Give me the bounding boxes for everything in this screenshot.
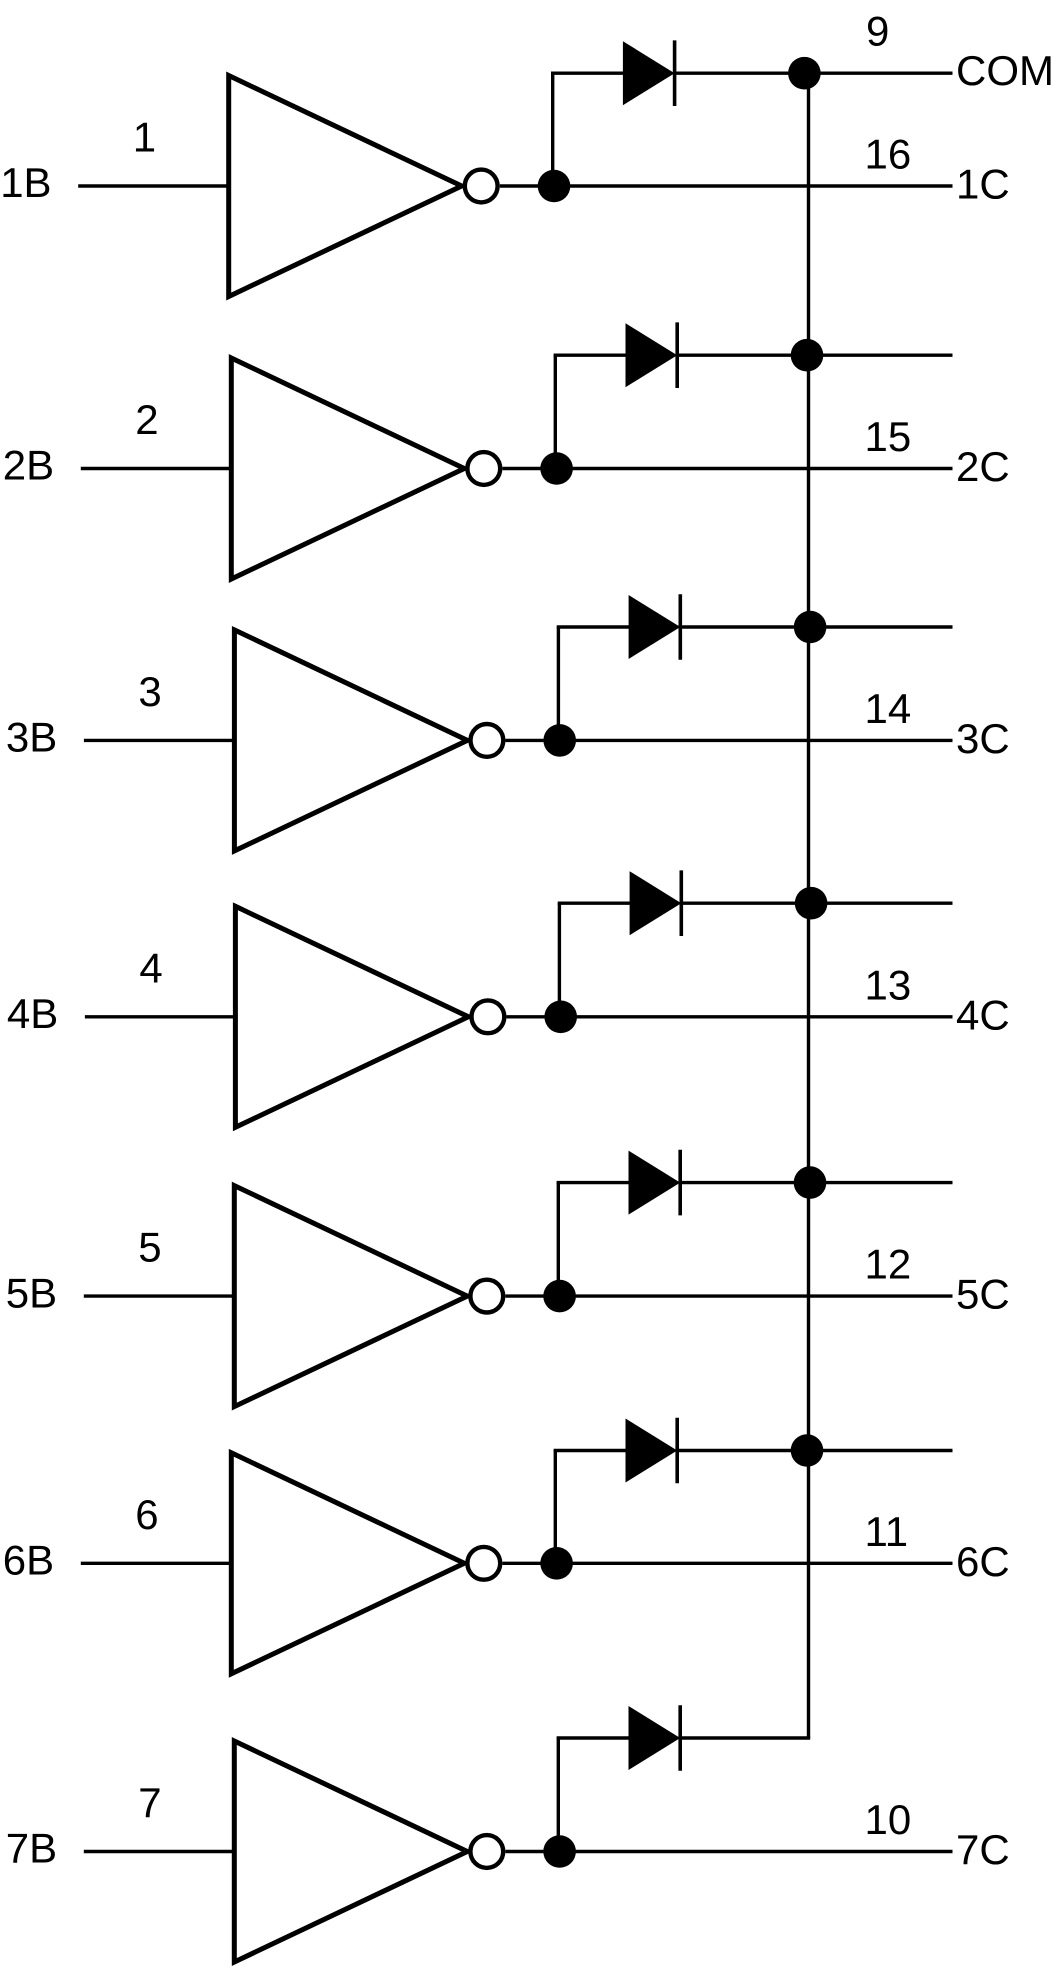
wire COM bus row stub 2 bbox=[809, 354, 953, 357]
wire output 3C bbox=[506, 739, 953, 742]
node COM junction dot 3 bbox=[794, 611, 827, 644]
svg-text:1B: 1B bbox=[0, 159, 51, 206]
svg-text:10: 10 bbox=[865, 1796, 912, 1843]
wire COM bus row stub 6 bbox=[809, 1449, 953, 1452]
wire riser to diode D3 bbox=[557, 627, 560, 740]
node output junction dot 2 bbox=[540, 452, 573, 485]
wire diode D3 anode bbox=[557, 625, 631, 628]
node COM junction dot 6 bbox=[791, 1434, 824, 1467]
node COM junction dot 1 bbox=[788, 57, 821, 90]
svg-text:12: 12 bbox=[865, 1241, 912, 1288]
wire diode D2 anode bbox=[554, 354, 628, 357]
wire output 6C bbox=[502, 1562, 952, 1565]
svg-text:5B: 5B bbox=[6, 1269, 57, 1316]
buffer A4 inverting bubble bbox=[472, 1000, 505, 1033]
svg-text:14: 14 bbox=[865, 685, 912, 732]
diode D7 bbox=[629, 1706, 681, 1770]
diode D4 bbox=[630, 871, 682, 935]
wire input 2B bbox=[81, 467, 232, 470]
buffer A3 triangle bbox=[234, 630, 467, 851]
node output junction dot 6 bbox=[540, 1547, 573, 1580]
svg-text:5C: 5C bbox=[956, 1271, 1010, 1318]
wire diode D2 cathode to COM bus bbox=[677, 354, 810, 357]
wire COM bus vertical bbox=[807, 73, 810, 1738]
wire riser to diode D7 bbox=[557, 1738, 560, 1852]
buffer A6 triangle bbox=[231, 1453, 464, 1674]
wire input 4B bbox=[85, 1015, 236, 1018]
svg-text:4C: 4C bbox=[956, 991, 1010, 1038]
wire output 5C bbox=[505, 1294, 952, 1297]
svg-text:6B: 6B bbox=[3, 1537, 54, 1584]
buffer A1 triangle bbox=[229, 76, 462, 297]
node COM junction dot 4 bbox=[795, 887, 828, 920]
svg-text:COM: COM bbox=[956, 47, 1053, 94]
wire diode D6 cathode to COM bus bbox=[677, 1449, 810, 1452]
node COM junction dot 2 bbox=[791, 339, 824, 372]
buffer A5 triangle bbox=[234, 1186, 467, 1407]
wire input 5B bbox=[84, 1294, 235, 1297]
wire output 2C bbox=[502, 467, 952, 470]
diode D5 bbox=[629, 1151, 681, 1215]
buffer A6 inverting bubble bbox=[467, 1547, 500, 1580]
svg-text:2: 2 bbox=[135, 396, 158, 443]
wire diode D7 anode bbox=[557, 1736, 631, 1739]
diode D3 bbox=[629, 595, 681, 659]
node output junction dot 5 bbox=[543, 1280, 576, 1313]
wire output 4C bbox=[507, 1015, 953, 1018]
svg-text:6: 6 bbox=[135, 1491, 158, 1538]
diode D4 cathode bar bbox=[679, 870, 683, 936]
wire COM bus row stub 3 bbox=[809, 625, 953, 628]
svg-text:15: 15 bbox=[865, 413, 912, 460]
wire diode D4 anode bbox=[558, 902, 632, 905]
wire input 1B bbox=[78, 184, 229, 187]
wire diode D1 cathode to COM bus bbox=[675, 71, 811, 74]
wire diode D1 anode bbox=[551, 71, 625, 74]
svg-text:3: 3 bbox=[138, 668, 161, 715]
buffer A2 triangle bbox=[231, 358, 464, 579]
svg-text:3C: 3C bbox=[956, 715, 1010, 762]
buffer A2 inverting bubble bbox=[467, 452, 500, 485]
diode D7 cathode bar bbox=[678, 1705, 682, 1771]
node output junction dot 4 bbox=[544, 1001, 577, 1034]
wire diode D5 cathode to COM bus bbox=[680, 1181, 810, 1184]
buffer A1 inverting bubble bbox=[465, 170, 498, 203]
wire riser to diode D2 bbox=[554, 355, 557, 468]
buffer A7 inverting bubble bbox=[470, 1835, 503, 1868]
diode D1 cathode bar bbox=[673, 40, 677, 106]
wire input 7B bbox=[84, 1850, 235, 1853]
diode D6 bbox=[626, 1419, 678, 1483]
node COM junction dot 5 bbox=[794, 1166, 827, 1199]
wire diode D4 cathode to COM bus bbox=[681, 902, 810, 905]
wire riser to diode D5 bbox=[557, 1183, 560, 1297]
wire COM bus row stub 4 bbox=[809, 902, 953, 905]
wire COM bus row stub 5 bbox=[809, 1181, 953, 1184]
wire diode D3 cathode to COM bus bbox=[680, 625, 810, 628]
wire diode D5 anode bbox=[557, 1181, 631, 1184]
diode D2 bbox=[626, 323, 678, 387]
svg-text:13: 13 bbox=[865, 961, 912, 1008]
wire input 3B bbox=[84, 739, 235, 742]
buffer A4 triangle bbox=[235, 906, 468, 1127]
wire riser to diode D6 bbox=[554, 1451, 557, 1564]
svg-text:1C: 1C bbox=[956, 161, 1010, 208]
wire output 1C bbox=[500, 184, 953, 187]
svg-text:4: 4 bbox=[139, 944, 162, 991]
svg-text:16: 16 bbox=[865, 131, 912, 178]
svg-text:4B: 4B bbox=[7, 990, 58, 1037]
svg-text:2C: 2C bbox=[956, 443, 1010, 490]
svg-text:7: 7 bbox=[138, 1779, 161, 1826]
diode D6 cathode bar bbox=[675, 1418, 679, 1484]
wire riser to diode D4 bbox=[558, 903, 561, 1017]
svg-text:11: 11 bbox=[865, 1508, 909, 1555]
svg-text:3B: 3B bbox=[6, 714, 57, 761]
node output junction dot 7 bbox=[543, 1835, 576, 1868]
buffer A7 triangle bbox=[234, 1741, 467, 1962]
diode D5 cathode bar bbox=[678, 1150, 682, 1216]
wire diode D7 cathode to COM bus bbox=[680, 1736, 810, 1739]
svg-text:6C: 6C bbox=[956, 1538, 1010, 1585]
node output junction dot 3 bbox=[543, 724, 576, 757]
diode D2 cathode bar bbox=[675, 322, 679, 388]
svg-text:5: 5 bbox=[138, 1224, 161, 1271]
node output junction dot 1 bbox=[538, 170, 571, 203]
buffer A5 inverting bubble bbox=[470, 1280, 503, 1313]
svg-text:2B: 2B bbox=[3, 442, 54, 489]
diode D1 bbox=[623, 41, 675, 105]
wire diode D6 anode bbox=[554, 1449, 628, 1452]
svg-text:9: 9 bbox=[866, 8, 889, 55]
wire riser to diode D1 bbox=[551, 73, 554, 186]
wire COM bus row stub 1 bbox=[809, 71, 953, 74]
svg-text:7B: 7B bbox=[6, 1825, 57, 1872]
wire output 7C bbox=[505, 1850, 952, 1853]
buffer A3 inverting bubble bbox=[471, 724, 504, 757]
svg-text:7C: 7C bbox=[956, 1826, 1010, 1873]
diode D3 cathode bar bbox=[678, 594, 682, 660]
wire input 6B bbox=[81, 1562, 232, 1565]
svg-text:1: 1 bbox=[133, 114, 156, 161]
